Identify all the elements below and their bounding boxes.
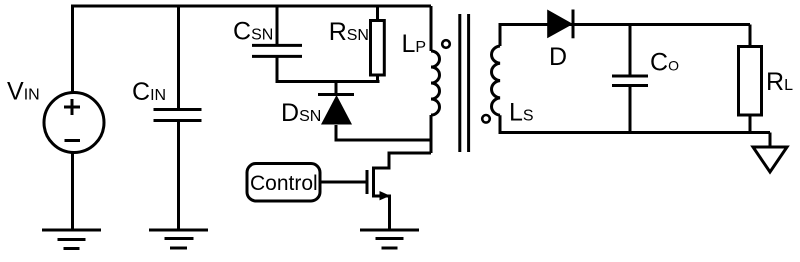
resistor RL xyxy=(739,47,762,116)
polarity dot primary xyxy=(442,40,450,48)
wire CIN top lead xyxy=(177,5,180,110)
transformer core xyxy=(460,14,469,152)
capacitor CSN xyxy=(252,45,302,56)
diode D xyxy=(547,10,573,39)
svg-text:DSN: DSN xyxy=(281,99,321,127)
wire CO bottom lead xyxy=(629,86,632,133)
svg-text:RSN: RSN xyxy=(329,18,369,46)
wire CO top lead xyxy=(629,25,632,77)
minus terminal of VIN xyxy=(65,139,81,142)
wire CSN bottom lead xyxy=(277,56,380,81)
wire VIN bottom lead xyxy=(71,152,74,230)
wire RL top lead xyxy=(749,25,752,47)
diode DSN xyxy=(318,95,354,125)
wire top rail xyxy=(71,5,431,8)
wire LS top lead and output top rail xyxy=(500,25,750,47)
capacitor CIN xyxy=(154,110,202,121)
ground G1 xyxy=(42,230,101,249)
wire RSN bottom lead xyxy=(376,75,379,82)
inductor LS secondary winding xyxy=(492,46,500,115)
svg-text:RL: RL xyxy=(766,68,793,96)
svg-text:Control: Control xyxy=(250,172,318,195)
wire LS bottom lead and output bottom rail xyxy=(500,115,770,132)
svg-text:CSN: CSN xyxy=(233,18,273,46)
wire LP top lead xyxy=(430,6,433,51)
svg-text:D: D xyxy=(549,43,567,71)
wire CIN bottom lead xyxy=(177,121,180,231)
polarity dot secondary xyxy=(482,115,490,123)
resistor RSN xyxy=(371,21,385,76)
transistor Q1 MOSFET xyxy=(367,167,390,231)
wire RSN top lead xyxy=(376,5,379,21)
ground G4 chassis triangle xyxy=(753,147,787,172)
wire LP bottom lead xyxy=(430,115,433,153)
plus terminal of VIN xyxy=(64,99,80,115)
svg-text:LP: LP xyxy=(402,30,427,58)
voltage source VIN xyxy=(44,93,104,153)
wire DSN anode to drain node xyxy=(336,125,431,140)
svg-text:CIN: CIN xyxy=(132,78,166,106)
capacitor CO xyxy=(612,76,648,86)
wire RL bottom lead xyxy=(749,115,752,133)
control block xyxy=(247,164,320,202)
inductor LP primary winding xyxy=(431,51,440,115)
svg-text:VIN: VIN xyxy=(7,78,40,106)
wire gate lead xyxy=(321,181,367,184)
wire drain staircase xyxy=(374,153,432,168)
wire CSN top lead xyxy=(276,5,279,46)
wire VIN top lead xyxy=(71,5,74,94)
svg-text:CO: CO xyxy=(650,49,679,77)
wire DSN cathode stub xyxy=(335,82,338,95)
svg-text:LS: LS xyxy=(509,99,534,127)
ground G2 xyxy=(149,230,208,248)
wire output ground stub xyxy=(769,133,772,148)
ground G3 xyxy=(360,230,419,248)
